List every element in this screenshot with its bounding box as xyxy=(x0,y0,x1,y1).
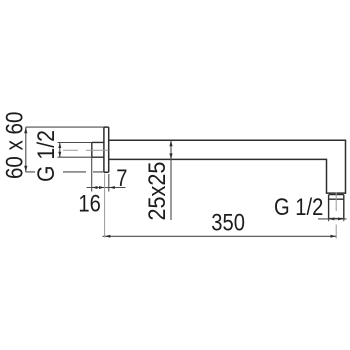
svg-text:16: 16 xyxy=(78,190,100,217)
outlet threaded stub G 1/2 (shower side) xyxy=(329,195,344,219)
wall flange (60x60 plate, side view) xyxy=(104,127,109,172)
svg-text:60 x 60: 60 x 60 xyxy=(1,112,28,179)
dimension 16 (stub length) xyxy=(87,157,126,191)
dimension 25x25 (arm cross-section) xyxy=(170,140,172,220)
svg-text:G 1/2: G 1/2 xyxy=(32,130,60,182)
svg-text:G 1/2: G 1/2 xyxy=(274,194,323,221)
dimension 60 x 60 (flange size) xyxy=(26,127,104,172)
stub centerline xyxy=(63,149,109,151)
dimension 350 (arm length) xyxy=(103,174,337,238)
svg-text:350: 350 xyxy=(211,209,245,236)
dimension G 1/2 (outlet thread) xyxy=(318,219,347,222)
inlet threaded stub G 1/2 (wall side) xyxy=(92,142,104,157)
svg-text:25x25: 25x25 xyxy=(143,162,170,221)
outlet centerline xyxy=(335,193,337,239)
shower arm (25x25 square tube, bent) xyxy=(109,140,346,193)
dimension G 1/2 (inlet thread) xyxy=(58,143,92,158)
svg-text:7: 7 xyxy=(116,164,127,191)
